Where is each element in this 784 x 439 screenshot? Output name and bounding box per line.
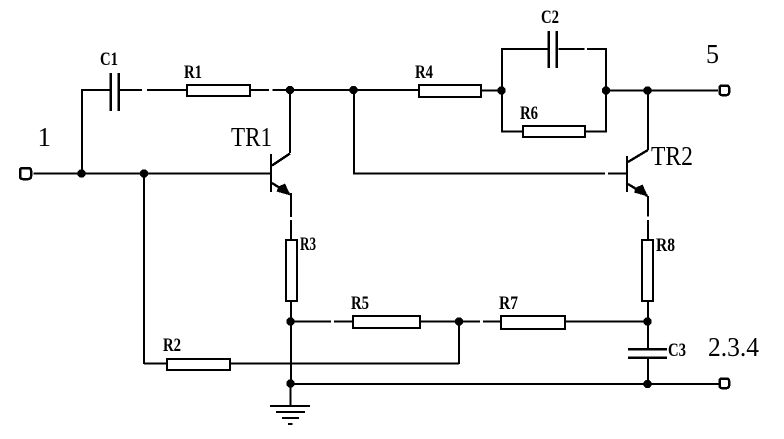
wire block bottom left segment — [501, 130, 523, 132]
junction node A (TR1 collector) — [286, 86, 294, 94]
svg-text:2.3.4: 2.3.4 — [708, 332, 759, 362]
junction R5/R7 node — [455, 317, 463, 325]
junction output node (TR2 collector) — [643, 86, 651, 94]
wire R5 left segment (with break) — [291, 320, 354, 322]
resistor R7 — [501, 316, 565, 329]
wire block bottom right segment — [585, 130, 607, 132]
C2 value label — [541, 7, 559, 28]
junction input/C1 branch — [77, 169, 85, 177]
node 2.3.4 label — [708, 332, 759, 362]
junction node B (to TR2 base) — [349, 86, 357, 94]
TR1 label — [231, 122, 272, 152]
wire C1 branch horizontal to C1 left plate — [81, 89, 111, 91]
wire R3 bottom to junction — [290, 301, 292, 322]
svg-text:1: 1 — [38, 122, 52, 152]
TR2 label — [651, 141, 693, 171]
C3 value label — [668, 340, 686, 361]
svg-text:TR1: TR1 — [231, 122, 272, 152]
wire R8 bottom to node — [647, 301, 649, 322]
R4 label — [415, 62, 433, 83]
wire R5 to R7 node — [420, 320, 459, 322]
junction right node of C2/R6 block — [602, 86, 610, 94]
node 1 label — [38, 122, 52, 152]
R6 label — [520, 103, 538, 124]
wire R5/R7 node down — [458, 322, 460, 365]
R7 label — [499, 293, 518, 314]
capacitor C2 — [549, 31, 557, 68]
wire C3 bottom to ground rail — [647, 358, 649, 384]
svg-text:5: 5 — [706, 39, 719, 69]
svg-text:R3: R3 — [300, 234, 316, 255]
wire R7 to R8 node — [565, 320, 648, 322]
resistor R3 — [286, 240, 297, 301]
wire TR1 emitter vertical (with break) — [290, 193, 292, 240]
wire parallel block right vertical — [605, 49, 607, 132]
wire R4 to parallel block — [481, 89, 502, 91]
resistor R1 — [187, 85, 250, 96]
wire parallel block left vertical — [501, 49, 503, 132]
wire block top right segment (with break) — [559, 48, 608, 50]
wire R2 branch vertical x=144 — [143, 174, 145, 365]
wire junction down to ground node — [290, 322, 292, 385]
svg-text:C1: C1 — [100, 49, 118, 70]
wire node B to R4 — [354, 89, 420, 91]
capacitor C1 — [111, 73, 119, 111]
R8 label — [656, 235, 675, 256]
wire output node to terminal 5 — [648, 89, 719, 91]
resistor R5 — [353, 316, 420, 328]
wire input y=173 from terminal to TR1 base — [34, 172, 271, 174]
junction bottom rail / C3 — [643, 380, 651, 388]
svg-text:R7: R7 — [499, 293, 518, 314]
wire TR2 emitter vertical (with break) — [647, 196, 649, 240]
wire block to output node — [606, 89, 648, 91]
junction R8/C3 node — [643, 317, 651, 325]
wire bottom rail y=384 — [291, 383, 720, 385]
C1 value label — [100, 49, 118, 70]
transistor TR1 — [271, 154, 291, 196]
transistor TR2 — [627, 150, 648, 197]
R3 label — [300, 234, 316, 255]
wire block top left segment to C2 — [501, 48, 548, 50]
junction ground node — [286, 379, 294, 387]
R1 label — [184, 62, 202, 83]
resistor R6 — [523, 126, 585, 137]
resistor R8 — [642, 240, 653, 301]
wire TR2 base from node B — [353, 90, 626, 174]
node 5 label — [706, 39, 719, 69]
svg-text:R6: R6 — [520, 103, 538, 124]
svg-text:R1: R1 — [184, 62, 202, 83]
svg-text:R5: R5 — [351, 293, 369, 314]
wire feedback horizontal y=364 to R2 — [230, 362, 459, 364]
svg-text:R4: R4 — [415, 62, 433, 83]
wire TR2 collector vertical — [647, 91, 649, 151]
svg-text:R8: R8 — [656, 235, 675, 256]
wire R7 left segment (with break) — [459, 320, 501, 322]
terminal 5 (output port circle) — [720, 86, 730, 96]
junction input/R2 branch — [140, 169, 148, 177]
junction left node of C2/R6 block — [497, 86, 505, 94]
wire C1 branch vertical x=82 — [81, 90, 83, 174]
svg-text:TR2: TR2 — [651, 141, 693, 171]
svg-text:R2: R2 — [163, 335, 181, 356]
wire node to C3 top plate — [647, 322, 649, 349]
terminal 2.3.4 (port circle) — [720, 379, 730, 389]
resistor R2 — [167, 359, 230, 370]
wire C1 to R1 (with break) — [120, 89, 188, 91]
capacitor C3 — [628, 349, 667, 358]
R2 label — [163, 335, 181, 356]
svg-text:C2: C2 — [541, 7, 559, 28]
resistor R4 — [419, 85, 481, 97]
wire TR1 collector vertical — [289, 90, 291, 153]
ground — [270, 406, 310, 424]
terminal 1 (input port circle) — [20, 168, 31, 179]
junction R3/R5 node — [286, 317, 294, 325]
wire R1 to node A (with break) — [251, 89, 355, 91]
R5 label — [351, 293, 369, 314]
wire ground stem — [289, 384, 291, 407]
svg-text:C3: C3 — [668, 340, 686, 361]
wire R2 left to vertical — [144, 362, 167, 364]
